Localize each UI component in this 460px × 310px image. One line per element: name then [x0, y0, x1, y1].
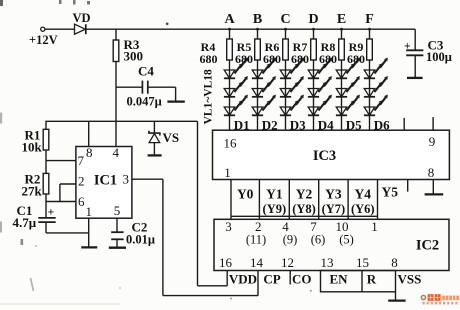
pin 13 [321, 255, 334, 270]
ground [388, 292, 405, 301]
node D [308, 12, 318, 31]
resistor R1 [43, 121, 49, 150]
svg-text:100μ: 100μ [426, 50, 452, 64]
svg-text:(Y8): (Y8) [292, 202, 316, 216]
ground [167, 100, 184, 102]
svg-text:+: + [48, 206, 55, 218]
led VL7 [280, 58, 304, 79]
resistor R5 [255, 29, 261, 130]
node Y0 [237, 186, 254, 201]
label VD [72, 11, 90, 25]
node (Y8) [292, 202, 316, 216]
pin 1 [371, 219, 378, 234]
label R9 680 [347, 40, 365, 66]
svg-text:13: 13 [321, 255, 334, 270]
node C [280, 12, 290, 31]
svg-text:2: 2 [78, 174, 85, 189]
wire [231, 215, 378, 217]
pin 15 [356, 255, 369, 270]
pin 6 [78, 194, 85, 209]
label R3 300 [124, 37, 144, 64]
wire [347, 180, 349, 220]
wire [46, 201, 76, 203]
led VL11 [308, 76, 332, 97]
wire [230, 180, 232, 220]
ground [148, 154, 162, 156]
wire [45, 28, 75, 30]
svg-text:10k: 10k [22, 140, 43, 155]
svg-text:+: + [404, 40, 411, 52]
node (Y9) [263, 202, 287, 216]
pin CO [290, 271, 311, 287]
svg-text:D: D [308, 12, 318, 27]
pin R [367, 272, 377, 287]
svg-text:0.01μ: 0.01μ [126, 232, 155, 246]
node Y5 [382, 184, 399, 199]
watermark logo [421, 294, 459, 304]
wire [45, 150, 47, 173]
svg-text:3: 3 [123, 171, 130, 186]
wire [132, 179, 163, 295]
pin 4 [282, 219, 289, 234]
label IC3 [313, 148, 336, 164]
wire [318, 180, 320, 220]
svg-text:VL1~VL18: VL1~VL18 [202, 69, 214, 124]
svg-text:680: 680 [291, 52, 309, 66]
led VL13 [336, 58, 360, 79]
pin 16 [219, 255, 233, 270]
led VL17 [364, 76, 388, 97]
svg-text:680: 680 [235, 52, 253, 66]
pin 8 [391, 255, 398, 270]
pin 3 [123, 171, 130, 186]
wire [163, 271, 258, 296]
svg-text:+12V: +12V [29, 33, 58, 47]
led VL1 [224, 58, 248, 79]
label R8 680 [319, 40, 337, 66]
svg-text:680: 680 [347, 52, 365, 66]
svg-text:15: 15 [356, 255, 369, 270]
pin 14 [250, 255, 264, 270]
capacitor C4 [116, 81, 176, 101]
led VL5 [252, 76, 276, 97]
wire [45, 120, 197, 122]
wire [258, 180, 260, 220]
svg-text:5: 5 [114, 203, 121, 218]
svg-text:VSS: VSS [398, 272, 422, 287]
diode VD [75, 24, 86, 34]
pin 2 [255, 219, 262, 234]
svg-text:16: 16 [224, 136, 238, 151]
pin 3 [225, 219, 232, 234]
box EN R [321, 271, 396, 292]
node D4 [318, 118, 334, 133]
pin 16 [224, 136, 238, 151]
capacitor C2 [111, 218, 123, 247]
label VS [163, 130, 180, 145]
label R2 27k [22, 172, 43, 199]
zener VS [149, 121, 160, 155]
label C3 100u [426, 38, 452, 64]
node E [337, 12, 346, 31]
label IC2 [416, 238, 439, 254]
led VL14 [336, 76, 360, 97]
svg-text:7: 7 [78, 153, 85, 168]
svg-text:8: 8 [391, 255, 398, 270]
svg-text:Y4: Y4 [355, 186, 372, 201]
ground [81, 246, 97, 248]
wire [377, 180, 379, 220]
node D5 [346, 118, 362, 133]
resistor R6 [283, 29, 289, 130]
ground [109, 247, 126, 249]
pin 12 [281, 255, 294, 270]
wire [86, 28, 415, 30]
pin (5) [339, 233, 354, 247]
svg-text:EN: EN [329, 272, 348, 287]
svg-text:IC2: IC2 [416, 238, 439, 254]
wire [45, 194, 47, 217]
svg-text:16: 16 [219, 255, 233, 270]
node Y4 [355, 186, 372, 201]
pin VSS [398, 272, 422, 287]
led VL18 [364, 95, 388, 116]
svg-text:(Y9): (Y9) [263, 202, 287, 216]
svg-text:F: F [365, 12, 374, 27]
resistor R3 [113, 29, 119, 146]
pin 2 [78, 174, 85, 189]
node B [253, 12, 262, 31]
label 0.047u [127, 95, 162, 109]
svg-text:CO: CO [292, 272, 312, 287]
label C1 4.7u [13, 203, 37, 230]
svg-text:(6): (6) [311, 233, 326, 247]
svg-text:(Y7): (Y7) [322, 202, 346, 216]
svg-text:4: 4 [113, 145, 120, 160]
pin VDD [229, 272, 257, 287]
pin (9) [283, 233, 298, 247]
led VL9 [280, 95, 304, 116]
svg-text:1: 1 [85, 204, 92, 219]
svg-text:(9): (9) [283, 233, 298, 247]
svg-text:1: 1 [224, 165, 231, 180]
svg-text:VS: VS [163, 130, 180, 145]
svg-text:680: 680 [200, 52, 218, 66]
wire [407, 180, 409, 192]
svg-text:8: 8 [86, 145, 93, 160]
node D2 [262, 118, 278, 133]
svg-text:E: E [337, 12, 346, 27]
node D6 [374, 118, 390, 133]
capacitor C1 [38, 206, 55, 233]
led VL4 [252, 58, 276, 79]
label VL1~VL18 [202, 69, 214, 124]
svg-text:680: 680 [319, 52, 337, 66]
node A [224, 12, 235, 31]
wire [288, 180, 290, 220]
wire [60, 184, 76, 202]
svg-text:A: A [224, 12, 235, 27]
pin 7 [78, 153, 85, 168]
ground [425, 180, 444, 195]
svg-text:IC1: IC1 [94, 173, 117, 189]
label C4 [138, 64, 154, 79]
led VL3 [224, 95, 248, 116]
pin 5 [114, 203, 121, 218]
led VL16 [364, 58, 388, 79]
svg-text:(Y6): (Y6) [351, 202, 375, 216]
label R7 680 [291, 40, 309, 66]
label IC1 [94, 173, 117, 189]
node D1 [234, 118, 250, 133]
label R5 680 [235, 40, 253, 66]
svg-text:VDD: VDD [229, 272, 257, 287]
node Y1 [266, 186, 283, 201]
pin (11) [246, 233, 266, 247]
node Y3 [325, 186, 342, 201]
pin 8 [428, 165, 435, 180]
svg-text:4.7μ: 4.7μ [13, 215, 37, 230]
label R6 680 [263, 40, 281, 66]
label C2 0.01u [126, 220, 155, 247]
svg-text:0.047μ: 0.047μ [127, 95, 162, 109]
svg-text:R: R [367, 272, 377, 287]
node (Y7) [322, 202, 346, 216]
svg-text:(11): (11) [246, 233, 266, 247]
led VL15 [336, 95, 360, 116]
pin 1 [85, 204, 92, 219]
pin 1 [224, 165, 231, 180]
svg-text:Y5: Y5 [382, 184, 399, 199]
label R4 680 [200, 40, 218, 66]
svg-text:680: 680 [263, 52, 281, 66]
svg-text:Y1: Y1 [266, 186, 283, 201]
resistor R2 [43, 173, 49, 194]
wire [88, 218, 90, 247]
pin 8 [86, 145, 93, 160]
resistor R7 [311, 29, 317, 130]
label R1 10k [22, 128, 43, 155]
ground [407, 77, 423, 79]
svg-text:Y3: Y3 [325, 186, 342, 201]
svg-text:C: C [280, 12, 290, 27]
ic IC2 [214, 219, 449, 270]
svg-text:14: 14 [250, 255, 264, 270]
svg-text:Y2: Y2 [296, 186, 313, 201]
resistor R9 [367, 29, 373, 130]
node F [365, 12, 374, 31]
pin 7 [310, 219, 317, 234]
node D3 [290, 118, 306, 133]
svg-text:6: 6 [78, 194, 85, 209]
resistor R4 [227, 29, 233, 130]
svg-text:3: 3 [225, 219, 232, 234]
wire [46, 232, 89, 234]
label +12V [29, 33, 58, 47]
svg-text:Y0: Y0 [237, 186, 254, 201]
svg-text:1: 1 [371, 219, 378, 234]
svg-text:12: 12 [281, 255, 294, 270]
ic IC1 [76, 147, 132, 219]
led VL8 [280, 76, 304, 97]
wire [198, 121, 228, 285]
svg-text:IC3: IC3 [313, 148, 336, 164]
led VL12 [308, 95, 332, 116]
led VL10 [308, 58, 332, 79]
svg-text:CP: CP [263, 272, 280, 287]
svg-text:27k: 27k [22, 184, 43, 199]
pin 9 [429, 134, 436, 149]
wire [403, 118, 405, 130]
svg-text:300: 300 [124, 49, 144, 64]
svg-text:C4: C4 [138, 64, 154, 79]
led VL6 [252, 95, 276, 116]
ic IC3 [213, 130, 450, 179]
pin (6) [311, 233, 326, 247]
svg-text:VD: VD [72, 11, 90, 25]
capacitor C3 [404, 29, 423, 77]
wire [432, 117, 434, 130]
led VL2 [224, 76, 248, 97]
terminal +12V [41, 27, 45, 31]
resistor R8 [339, 29, 345, 130]
wire [88, 121, 90, 146]
wire [46, 160, 76, 162]
svg-text:B: B [253, 12, 262, 27]
node Y2 [296, 186, 313, 201]
svg-text:9: 9 [429, 134, 436, 149]
svg-text:8: 8 [428, 165, 435, 180]
node (Y6) [351, 202, 375, 216]
pin CP [263, 272, 280, 287]
svg-text:(5): (5) [339, 233, 354, 247]
pin EN [329, 272, 348, 287]
pin 10 [336, 219, 349, 234]
pin 4 [113, 145, 120, 160]
